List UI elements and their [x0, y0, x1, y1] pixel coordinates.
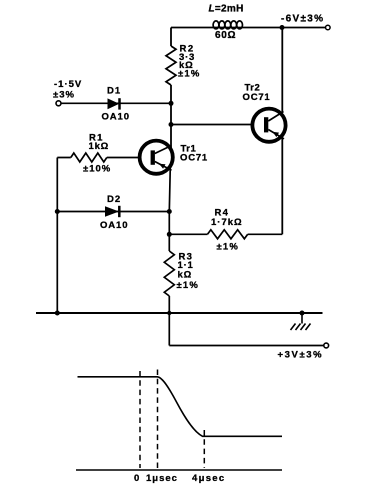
wire center vertical lower — [169, 157, 170, 346]
node junction earth tap — [300, 311, 305, 316]
wire R4 row — [169, 233, 282, 235]
svg-text:±1%: ±1% — [177, 280, 200, 291]
node junction left ground — [55, 311, 60, 316]
dashed line 1usec — [157, 370, 159, 469]
wire top rail — [171, 27, 326, 29]
terminal -1.5V — [56, 101, 61, 106]
svg-text:±3%: ±3% — [53, 90, 75, 101]
resistor R3 — [164, 251, 174, 296]
wire Tr2 collector vertical — [281, 28, 283, 235]
wire D2 row — [57, 211, 169, 213]
wire center vertical upper — [170, 28, 172, 158]
svg-text:1·7kΩ: 1·7kΩ — [211, 217, 243, 228]
svg-text:OA10: OA10 — [100, 220, 128, 231]
node junction top — [280, 25, 285, 30]
svg-text:1μsec: 1μsec — [146, 473, 178, 484]
svg-text:±1%: ±1% — [217, 242, 240, 253]
svg-text:-1·5V: -1·5V — [54, 79, 82, 90]
wire Tr1 collector to Tr2 base — [171, 124, 251, 126]
terminal -6V — [326, 25, 331, 30]
svg-text:+3V±3%: +3V±3% — [278, 350, 324, 361]
svg-text:1kΩ: 1kΩ — [89, 141, 110, 152]
ground — [291, 313, 311, 330]
wire ground rail — [36, 312, 323, 314]
svg-text:4μsec: 4μsec — [192, 473, 225, 484]
terminal +3V — [324, 343, 329, 348]
wire +3V rail — [169, 345, 324, 347]
wire R1 row — [57, 157, 140, 159]
node junction D2 right — [167, 209, 172, 214]
svg-text:-6V±3%: -6V±3% — [281, 14, 324, 25]
resistor R2 — [166, 46, 176, 85]
svg-text:±10%: ±10% — [83, 164, 111, 175]
svg-text:60Ω: 60Ω — [215, 30, 236, 41]
node junction R4 — [167, 232, 172, 237]
svg-text:±1%: ±1% — [178, 69, 201, 80]
resistor R4 — [208, 230, 248, 239]
node junction D1 — [169, 101, 174, 106]
svg-text:D1: D1 — [107, 86, 121, 97]
dashed line 4usec — [203, 430, 205, 468]
waveform trace — [78, 377, 283, 437]
svg-text:OC71: OC71 — [243, 92, 271, 103]
inductor L=2mH — [213, 21, 242, 29]
waveform axis — [76, 469, 282, 471]
svg-text:kΩ: kΩ — [178, 270, 193, 281]
node junction D2 left — [55, 209, 60, 214]
svg-text:0: 0 — [134, 473, 139, 484]
svg-text:OA10: OA10 — [102, 112, 130, 123]
transistor Tr1 — [140, 141, 173, 174]
node junction center ground — [167, 311, 171, 315]
transistor Tr2 — [252, 109, 285, 142]
svg-text:L=2mH: L=2mH — [209, 4, 244, 15]
svg-text:D2: D2 — [107, 194, 121, 205]
resistor R1 — [71, 153, 107, 162]
svg-text:OC71: OC71 — [180, 153, 208, 164]
diode D2 — [105, 206, 119, 217]
wire -1.5V to node — [61, 102, 171, 104]
diode D1 — [108, 98, 120, 109]
wire left vertical — [56, 158, 58, 314]
node junction base link — [169, 122, 174, 127]
dashed line 0 — [139, 371, 141, 468]
